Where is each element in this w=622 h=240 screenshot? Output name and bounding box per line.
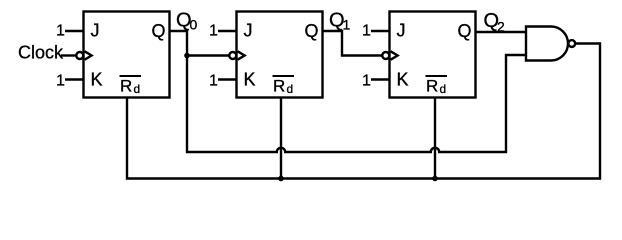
svg-text:K: K (397, 70, 409, 90)
wire FF3 Rd drop (434, 99, 436, 179)
svg-text:1: 1 (56, 23, 65, 40)
svg-text:K: K (244, 70, 256, 90)
clock edge triangle FF2 (238, 51, 245, 59)
wire Q0 to FF2 clock (187, 54, 230, 56)
node junction dot FF2 Rd (278, 176, 284, 182)
node junction dot FF3 Rd (432, 176, 438, 182)
svg-text:R: R (120, 77, 132, 96)
svg-text:d: d (287, 82, 294, 96)
wire Q1 net: FF2.Q to FF3 clock (323, 31, 383, 56)
svg-text:Q: Q (305, 21, 319, 41)
svg-text:R: R (426, 77, 438, 96)
wire Q2 net: FF3.Q to NAND input A (476, 31, 527, 33)
svg-text:J: J (91, 21, 100, 41)
svg-text:R: R (273, 77, 285, 96)
wire J2 stub (218, 30, 238, 32)
wire J1 stub (65, 30, 85, 32)
clock bubble FF3 (382, 52, 389, 59)
nand gate U4 body (526, 27, 568, 61)
svg-text:0: 0 (190, 17, 198, 33)
svg-text:1: 1 (56, 73, 65, 90)
flip-flop U2 box (237, 12, 323, 98)
wire J3 stub (371, 30, 391, 32)
svg-text:K: K (91, 70, 103, 90)
wire K3 stub (371, 78, 391, 80)
flip-flop U1 box (84, 12, 170, 98)
svg-text:1: 1 (209, 23, 218, 40)
wire clock feed (61, 54, 76, 56)
svg-text:Clock: Clock (18, 43, 64, 63)
wire NAND output feedback: right, down, along lower bus, up to FF1 Rd (127, 44, 600, 179)
nand gate U4 output bubble (568, 40, 575, 47)
svg-text:1: 1 (362, 23, 371, 40)
clock bubble FF1 (76, 52, 83, 59)
svg-text:d: d (134, 82, 141, 96)
svg-text:J: J (397, 21, 406, 41)
svg-text:1: 1 (343, 17, 351, 33)
wire Q0 net: FF1.Q right, down, along upper bus with hops, up to NAND input B (170, 31, 527, 152)
svg-text:d: d (440, 82, 447, 96)
svg-text:J: J (244, 21, 253, 41)
clock bubble FF2 (229, 52, 236, 59)
flip-flop U3 box (390, 12, 476, 98)
svg-text:1: 1 (209, 73, 218, 90)
clock edge triangle FF1 (85, 51, 92, 59)
wire FF2 Rd drop (280, 99, 282, 179)
wire K1 stub (65, 78, 85, 80)
svg-text:Q: Q (458, 21, 472, 41)
clock edge triangle FF3 (391, 51, 398, 59)
wire K2 stub (218, 78, 238, 80)
svg-text:1: 1 (362, 73, 371, 90)
node junction dot Q0 tee (184, 53, 190, 59)
svg-text:Q: Q (152, 21, 166, 41)
